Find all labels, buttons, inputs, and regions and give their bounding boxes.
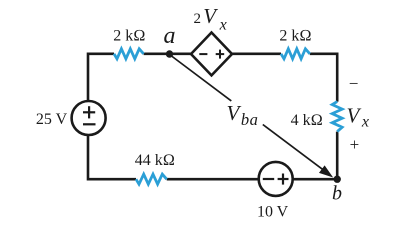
svg-text:a: a [164,23,176,49]
svg-text:2 kΩ: 2 kΩ [279,27,311,44]
resistor R1 2 kOhm (top left) [114,49,144,59]
voltage source V2 10V (circle, bottom) [259,162,293,196]
voltage source V1 25V (circle, left) [72,101,106,135]
wire diamond to resistor R2 [232,52,281,55]
V2 minus sign [263,178,274,180]
wire arrow Vba segment 1 (from node a) [172,56,232,101]
wire 10V source to resistor R44 [167,178,259,181]
V1 minus sign [83,123,96,125]
resistor R4 44 kOhm (bottom) [136,174,167,184]
svg-text:2 kΩ: 2 kΩ [113,28,145,45]
svg-text:−: − [349,74,359,93]
V1 plus sign [83,111,95,113]
wire top-right corner [310,54,337,102]
node b [334,176,341,183]
svg-text:+: + [350,135,360,154]
svg-text:4 kΩ: 4 kΩ [291,112,323,129]
wire top-left segment [88,54,114,101]
resistor R3 4 kOhm (right side, vertical) [332,102,342,132]
svg-text:44 kΩ: 44 kΩ [135,152,175,169]
resistor R2 2 kOhm (top right) [281,49,310,59]
svg-text:10 V: 10 V [257,204,289,221]
dependent source U1 (diamond 2Vx) [191,33,232,76]
wire arrow Vba segment 2 (to node b) with arrowhead [263,125,323,170]
node a [166,50,173,57]
U1 plus sign [216,53,225,55]
arrowhead at node b [320,166,332,176]
svg-text:b: b [332,182,342,204]
wire node a segment (resistor R1 to diamond) [144,52,191,55]
U1 minus sign [199,53,207,55]
wire right-bottom segment [293,132,337,180]
wire left-bottom segment [88,136,136,179]
V2 plus sign [278,178,289,180]
svg-text:25 V: 25 V [36,111,68,128]
